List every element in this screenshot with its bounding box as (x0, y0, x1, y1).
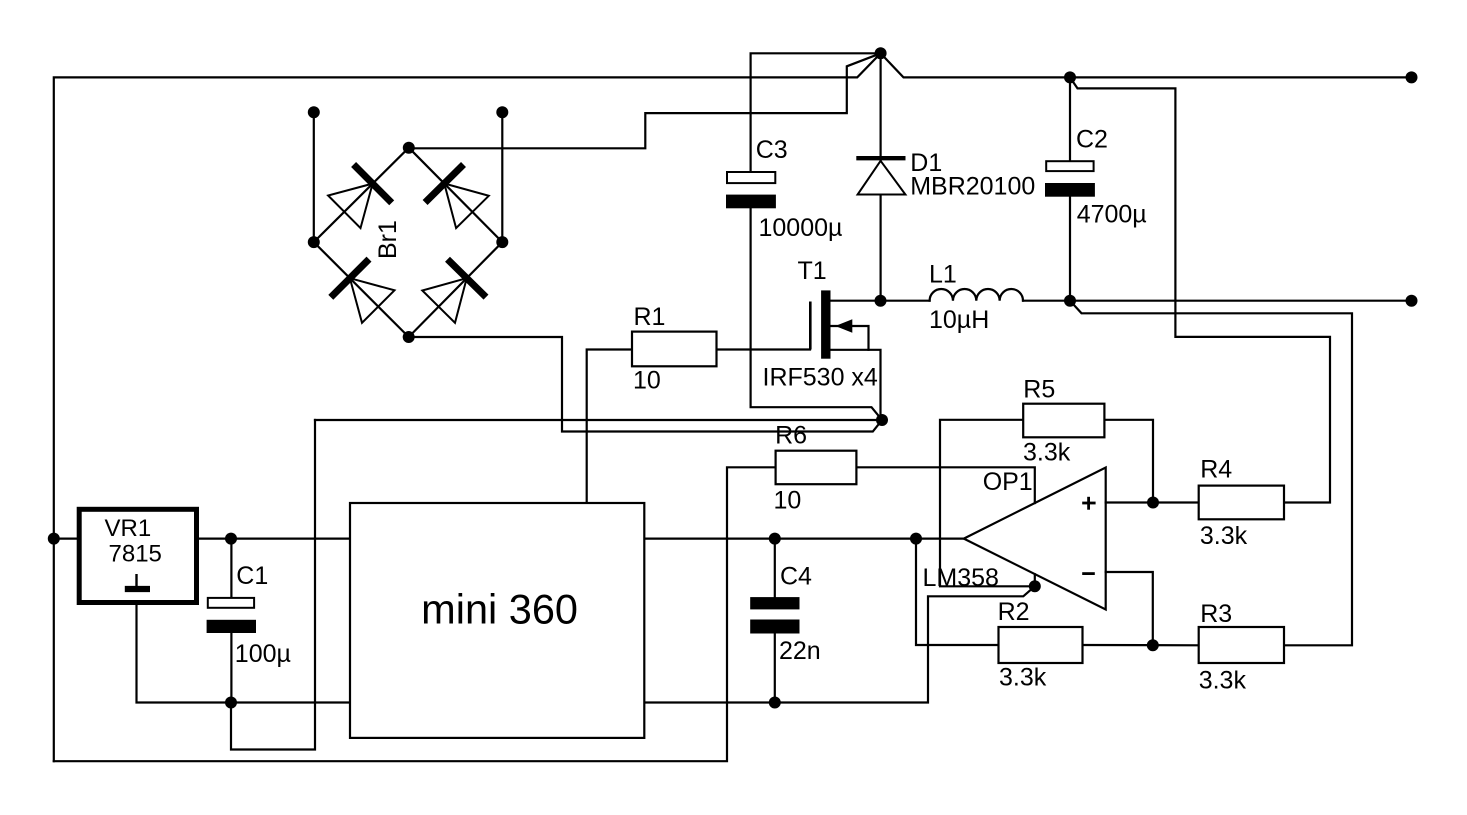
svg-text:10µH: 10µH (929, 306, 989, 334)
svg-text:100µ: 100µ (235, 640, 291, 668)
svg-text:IRF530 x4: IRF530 x4 (763, 363, 878, 391)
svg-text:L1: L1 (929, 261, 957, 289)
svg-text:MBR20100: MBR20100 (910, 173, 1035, 201)
svg-text:4700µ: 4700µ (1077, 201, 1147, 229)
svg-text:22n: 22n (779, 637, 821, 665)
svg-text:R2: R2 (998, 598, 1030, 626)
svg-text:R6: R6 (775, 421, 807, 449)
svg-text:10: 10 (633, 367, 661, 395)
svg-text:3.3k: 3.3k (1200, 522, 1248, 550)
svg-text:OP1: OP1 (983, 468, 1033, 496)
svg-text:R4: R4 (1200, 456, 1232, 484)
svg-text:3.3k: 3.3k (1199, 667, 1247, 695)
svg-text:3.3k: 3.3k (1023, 438, 1071, 466)
svg-text:10000µ: 10000µ (759, 214, 843, 242)
svg-text:R1: R1 (634, 303, 666, 331)
svg-text:T1: T1 (798, 257, 827, 285)
svg-text:mini 360: mini 360 (421, 586, 578, 633)
svg-text:C2: C2 (1076, 126, 1108, 154)
svg-text:R3: R3 (1200, 600, 1232, 628)
svg-text:VR1: VR1 (105, 515, 152, 542)
svg-text:LM358: LM358 (923, 564, 999, 592)
svg-text:C4: C4 (780, 562, 812, 590)
svg-text:10: 10 (774, 487, 802, 515)
svg-text:7815: 7815 (109, 540, 162, 567)
svg-text:R5: R5 (1023, 375, 1055, 403)
svg-text:C1: C1 (236, 562, 268, 590)
svg-text:Br1: Br1 (374, 220, 402, 259)
svg-text:C3: C3 (756, 136, 788, 164)
svg-text:3.3k: 3.3k (999, 664, 1047, 692)
